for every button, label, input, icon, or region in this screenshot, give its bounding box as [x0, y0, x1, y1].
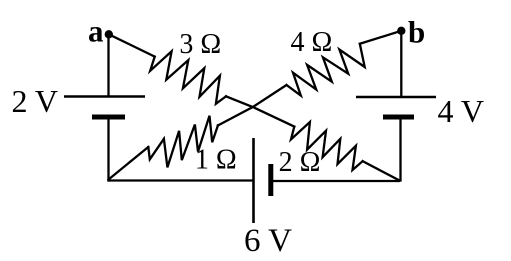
wire: battery V3 short plate to bottom-right corner [271, 180, 400, 182]
svg-text:4 Ω: 4 Ω [290, 27, 332, 58]
svg-text:a: a [88, 14, 104, 49]
svg-text:4 V: 4 V [438, 93, 485, 129]
wire: node b to resistor R4 [360, 31, 402, 44]
battery V2 (4 V) short negative plate [383, 115, 414, 120]
wire: node a down to battery V1 positive plate [107, 34, 109, 96]
resistor R1, 1 ohm (lower-left diagonal) [148, 116, 218, 168]
svg-text:b: b [408, 15, 425, 50]
wire: resistor R1 to bottom-left corner [109, 147, 149, 180]
battery V3 (6 V) short negative plate (vertical thick) [268, 164, 273, 196]
svg-text:6 V: 6 V [244, 223, 292, 259]
wire: resistor R4 through crossing to resistor R1 (wires cross, no junction) [218, 85, 287, 126]
resistor R3, 3 ohm (upper-left diagonal) [150, 51, 226, 104]
svg-text:2 V: 2 V [12, 83, 59, 119]
battery V2 (4 V) long positive plate [356, 96, 436, 99]
svg-text:3 Ω: 3 Ω [179, 29, 221, 60]
battery V3 (6 V) long positive plate (vertical) [252, 138, 255, 223]
battery V1 (2 V) long positive plate [64, 95, 145, 98]
node a junction dot [105, 30, 113, 38]
node b junction dot [397, 27, 405, 35]
wire: battery V1 negative plate down to bottom-left corner [107, 117, 109, 182]
svg-text:1 Ω: 1 Ω [195, 145, 237, 176]
resistor R2, 2 ohm (lower-right diagonal) [291, 122, 363, 170]
wire: resistor R3 through crossing to resistor R2 [226, 96, 294, 126]
battery V1 (2 V) short negative plate [92, 115, 125, 120]
wire: bottom-left corner to battery V3 long plate [107, 179, 253, 181]
wire: node a to resistor R3 [109, 34, 155, 56]
wire: bottom-right corner up to battery V2 short plate [399, 117, 401, 182]
svg-text:2 Ω: 2 Ω [279, 147, 321, 178]
wire: battery V2 long plate up to node b [400, 31, 402, 97]
wire: resistor R2 to bottom-right corner [363, 161, 400, 180]
resistor R4, 4 ohm (upper-right diagonal) [287, 44, 365, 96]
